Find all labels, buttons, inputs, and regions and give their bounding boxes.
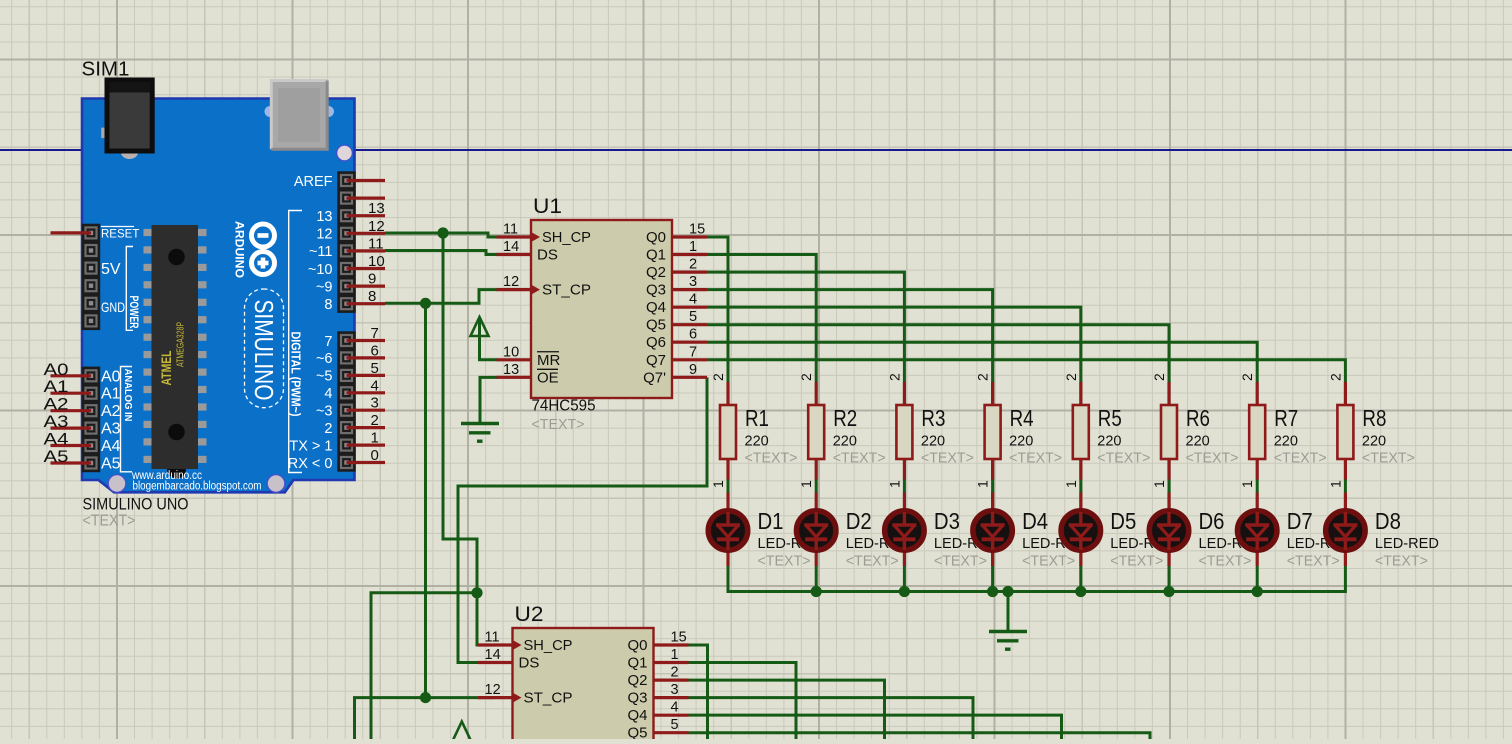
svg-text:D4: D4 <box>1022 508 1048 534</box>
mounting hole top right <box>337 145 353 161</box>
svg-text:R6: R6 <box>1186 405 1210 431</box>
svg-text:2: 2 <box>975 373 991 381</box>
wire: pin11 to U1 DS <box>385 251 498 255</box>
svg-text:1: 1 <box>371 430 379 447</box>
svg-text:220: 220 <box>833 434 857 450</box>
svg-text:10: 10 <box>503 344 519 360</box>
wire: U1 Q7 to R8 <box>707 360 1345 382</box>
svg-text:A5: A5 <box>101 455 121 472</box>
junction bus at D6 <box>1163 586 1174 597</box>
resistor R3 220 <box>903 382 906 405</box>
svg-text:<TEXT>: <TEXT> <box>745 450 798 467</box>
svg-text:220: 220 <box>1274 434 1298 450</box>
svg-text:AREF: AREF <box>294 174 333 190</box>
svg-text:GND: GND <box>101 299 125 315</box>
svg-text:<TEXT>: <TEXT> <box>1274 450 1327 467</box>
wire: U1 Q7' to U2 DS <box>458 377 707 662</box>
svg-text:220: 220 <box>1009 434 1033 450</box>
svg-text:DS: DS <box>519 655 540 672</box>
svg-text:~10: ~10 <box>308 262 333 278</box>
svg-text:0: 0 <box>371 447 379 464</box>
led D4 LED-RED <box>991 480 994 493</box>
svg-text:13: 13 <box>368 200 385 217</box>
svg-text:2: 2 <box>671 665 679 681</box>
svg-text:<TEXT>: <TEXT> <box>758 553 811 570</box>
wire: ST_CP net down to U2 <box>426 303 495 697</box>
power header <box>82 224 100 330</box>
svg-text:Q7': Q7' <box>643 369 666 386</box>
svg-text:5: 5 <box>689 309 697 325</box>
wire: U2 Q1 to lower sheet <box>689 663 797 739</box>
led D1 LED-RED <box>727 480 730 493</box>
svg-text:SH_CP: SH_CP <box>524 637 573 654</box>
svg-text:15: 15 <box>689 222 705 238</box>
junction SH_CP at pin12 wire <box>437 227 448 238</box>
svg-text:R4: R4 <box>1010 405 1034 431</box>
svg-text:<TEXT>: <TEXT> <box>1097 450 1150 467</box>
svg-text:ATMEL: ATMEL <box>159 351 174 386</box>
svg-text:ST_CP: ST_CP <box>542 282 591 299</box>
resistor R8 220 <box>1344 382 1347 405</box>
svg-text:<TEXT>: <TEXT> <box>1375 553 1428 570</box>
svg-text:1: 1 <box>689 239 697 255</box>
svg-text:220: 220 <box>1362 434 1386 450</box>
svg-text:<TEXT>: <TEXT> <box>846 553 899 570</box>
svg-text:5: 5 <box>671 717 679 733</box>
svg-text:R7: R7 <box>1274 405 1298 431</box>
svg-text:U2: U2 <box>515 603 544 626</box>
svg-text:2: 2 <box>1239 373 1255 381</box>
svg-text:R5: R5 <box>1098 405 1122 431</box>
resistor R4 220 <box>991 382 994 405</box>
svg-text:A2: A2 <box>44 395 69 414</box>
svg-text:2: 2 <box>689 257 697 273</box>
svg-text:<TEXT>: <TEXT> <box>1362 450 1415 467</box>
svg-text:blogembarcado.blogspot.com: blogembarcado.blogspot.com <box>133 481 262 493</box>
simulino dashed border <box>245 289 284 408</box>
svg-text:POWER: POWER <box>127 296 141 329</box>
svg-text:1: 1 <box>710 480 726 488</box>
svg-text:A3: A3 <box>101 421 121 438</box>
svg-text:1: 1 <box>798 480 814 488</box>
arduino logo <box>252 224 275 247</box>
wire: D6 cathode drop <box>1168 566 1171 592</box>
svg-text:~9: ~9 <box>316 279 333 295</box>
74HC595 U1 body <box>497 237 708 377</box>
power symbol VCC for U2 <box>453 722 471 741</box>
junction SH_CP lower <box>471 587 482 598</box>
ground symbol for U1 <box>480 377 498 423</box>
svg-text:R8: R8 <box>1362 405 1386 431</box>
mounting hole bottom left <box>108 475 126 493</box>
svg-text:Q3: Q3 <box>646 282 666 299</box>
svg-text:<TEXT>: <TEXT> <box>921 450 974 467</box>
svg-text:A4: A4 <box>44 430 69 449</box>
svg-text:R3: R3 <box>921 405 945 431</box>
svg-text:D2: D2 <box>846 508 872 534</box>
led D6 LED-RED <box>1168 480 1171 493</box>
svg-text:<TEXT>: <TEXT> <box>1186 450 1239 467</box>
atmega328 chip <box>144 229 153 236</box>
svg-text:220: 220 <box>745 434 769 450</box>
svg-text:TX > 1: TX > 1 <box>289 438 332 454</box>
wire: D3 cathode drop <box>903 566 906 592</box>
svg-text:13: 13 <box>316 209 332 225</box>
wire: U1 Q1 to R2 <box>707 255 816 382</box>
junction bus at D2 <box>811 586 822 597</box>
svg-text:74HC595: 74HC595 <box>532 398 596 415</box>
svg-text:8: 8 <box>368 288 376 305</box>
analog header <box>82 367 100 473</box>
svg-text:Q7: Q7 <box>646 352 666 369</box>
svg-text:~11: ~11 <box>309 244 333 260</box>
svg-text:1: 1 <box>1151 480 1167 488</box>
wire: U2 Q5 to lower sheet <box>689 733 1151 739</box>
wire: U2 Q0 to lower sheet <box>689 645 708 739</box>
svg-text:A1: A1 <box>101 386 121 403</box>
digital bracket <box>289 211 302 473</box>
svg-text:A2: A2 <box>101 403 121 420</box>
svg-text:A0: A0 <box>101 368 121 385</box>
svg-text:13: 13 <box>503 362 519 378</box>
wire: U1 Q5 to R6 <box>707 325 1169 382</box>
svg-text:<TEXT>: <TEXT> <box>1199 553 1252 570</box>
svg-text:D5: D5 <box>1110 508 1136 534</box>
wire: U2 Q3 to lower sheet <box>689 698 974 739</box>
svg-text:4: 4 <box>671 700 679 716</box>
svg-text:4: 4 <box>324 386 332 402</box>
svg-text:Q5: Q5 <box>627 725 647 739</box>
svg-text:220: 220 <box>921 434 945 450</box>
led D7 LED-RED <box>1256 480 1259 493</box>
digital header 7-0 <box>337 331 355 471</box>
POWER bracket <box>126 247 133 331</box>
svg-text:D7: D7 <box>1287 508 1313 534</box>
wire: U2 Q4 to lower sheet <box>689 715 1062 739</box>
wire: D7 cathode drop <box>1256 566 1259 592</box>
svg-text:D8: D8 <box>1375 508 1401 534</box>
svg-text:ST_CP: ST_CP <box>524 690 573 707</box>
svg-text:Q2: Q2 <box>646 264 666 281</box>
svg-text:12: 12 <box>485 682 501 698</box>
svg-text:9: 9 <box>689 362 697 378</box>
wire: D4 cathode drop <box>991 566 994 592</box>
svg-text:1: 1 <box>1239 480 1255 488</box>
svg-text:2: 2 <box>371 412 379 429</box>
svg-text:2: 2 <box>886 373 902 381</box>
ANALOG IN bracket <box>121 367 133 472</box>
led D3 LED-RED <box>903 480 906 493</box>
svg-text:Q5: Q5 <box>646 317 666 334</box>
svg-text:8: 8 <box>324 297 332 313</box>
svg-text:SIMULINO UNO: SIMULINO UNO <box>83 495 189 514</box>
junction bus at D5 <box>1075 586 1086 597</box>
wire: pin8 to U1 ST_CP <box>385 290 498 304</box>
resistor R6 220 <box>1167 382 1170 405</box>
wire: D2 cathode drop <box>815 566 818 592</box>
svg-text:220: 220 <box>1097 434 1121 450</box>
digital header 13-8 + AREF <box>337 171 355 313</box>
arduino right pin stubs <box>347 181 386 463</box>
junction bus ground tap <box>1002 586 1013 597</box>
svg-text:Q4: Q4 <box>646 299 666 316</box>
led D2 LED-RED <box>815 480 818 493</box>
svg-text:ANALOG IN: ANALOG IN <box>122 369 134 422</box>
svg-text:D3: D3 <box>934 508 960 534</box>
svg-text:<TEXT>: <TEXT> <box>1287 553 1340 570</box>
wire: U1 Q4 to R5 <box>707 307 1081 382</box>
svg-text:Q0: Q0 <box>646 229 666 246</box>
resistor R2 220 <box>815 382 818 405</box>
wire: D5 cathode drop <box>1079 566 1082 592</box>
svg-text:<TEXT>: <TEXT> <box>1009 450 1062 467</box>
junction ST_CP lower <box>420 692 431 703</box>
svg-text:ATMEGA328P: ATMEGA328P <box>176 322 187 367</box>
svg-text:<TEXT>: <TEXT> <box>1022 553 1075 570</box>
svg-text:Q1: Q1 <box>627 655 647 672</box>
wire: U1 Q6 to R7 <box>707 342 1257 382</box>
svg-text:A3: A3 <box>44 412 69 431</box>
arduino SIM1 board outline <box>82 99 355 493</box>
svg-text:A4: A4 <box>101 438 121 455</box>
svg-text:LED-RED: LED-RED <box>1375 535 1439 552</box>
svg-text:A5: A5 <box>44 447 69 466</box>
svg-text:MR: MR <box>537 352 560 369</box>
svg-text:7: 7 <box>689 344 697 360</box>
svg-text:RESET: RESET <box>101 229 139 241</box>
wire: SH_CP branch to lower sheet <box>371 593 477 739</box>
svg-text:12: 12 <box>368 218 385 235</box>
svg-text:7: 7 <box>324 334 332 350</box>
junction bus at D7 <box>1252 586 1263 597</box>
svg-text:14: 14 <box>503 239 519 255</box>
svg-text:D1: D1 <box>758 508 784 534</box>
svg-text:ARDUINO: ARDUINO <box>233 221 247 278</box>
svg-text:5V: 5V <box>101 261 121 278</box>
svg-text:Q6: Q6 <box>646 334 666 351</box>
svg-text:2: 2 <box>798 373 814 381</box>
sheet border line <box>0 149 1512 151</box>
svg-text:~6: ~6 <box>316 351 333 367</box>
mounting hole bottom right <box>267 475 285 493</box>
svg-text:11: 11 <box>485 630 500 646</box>
led D5 LED-RED <box>1079 480 1082 493</box>
led D8 LED-RED <box>1344 480 1347 493</box>
usb connector <box>265 106 276 117</box>
svg-text:4: 4 <box>371 377 379 394</box>
svg-text:U1: U1 <box>533 195 562 218</box>
arduino left pin stubs (reset + A0-A5) <box>51 233 92 463</box>
resistor R7 220 <box>1256 382 1259 405</box>
svg-text:DIGITAL (PWM~): DIGITAL (PWM~) <box>289 332 303 417</box>
svg-text:2: 2 <box>1327 373 1343 381</box>
svg-text:Q0: Q0 <box>627 637 647 654</box>
svg-text:<TEXT>: <TEXT> <box>1110 553 1163 570</box>
svg-text:Q4: Q4 <box>627 707 647 724</box>
svg-text:~5: ~5 <box>316 369 333 385</box>
svg-text:SIM1: SIM1 <box>82 58 130 81</box>
svg-text:10: 10 <box>368 253 385 270</box>
svg-text:R2: R2 <box>833 405 857 431</box>
svg-text:1: 1 <box>886 480 902 488</box>
wire: U1 Q0 to R1 <box>707 237 728 382</box>
svg-text:5: 5 <box>371 360 379 377</box>
svg-text:2: 2 <box>1151 373 1167 381</box>
74HC595 U2 body <box>478 645 689 744</box>
svg-text:3: 3 <box>689 274 697 290</box>
svg-text:4: 4 <box>689 292 697 308</box>
svg-text:2: 2 <box>710 373 726 381</box>
svg-text:~3: ~3 <box>316 404 333 420</box>
svg-text:R1: R1 <box>745 405 769 431</box>
wire: LED cathode bus <box>728 566 1345 592</box>
svg-text:SH_CP: SH_CP <box>542 229 591 246</box>
svg-text:6: 6 <box>371 342 379 359</box>
wire: U1 Q2 to R3 <box>707 272 904 382</box>
svg-text:OE: OE <box>537 369 559 386</box>
svg-text:<TEXT>: <TEXT> <box>934 553 987 570</box>
svg-text:1: 1 <box>1327 480 1343 488</box>
wire: ST_CP branch to lower sheet <box>355 698 426 739</box>
svg-text:11: 11 <box>503 222 518 238</box>
svg-text:9: 9 <box>368 271 376 288</box>
wire: U1 Q3 to R4 <box>707 290 993 382</box>
svg-text:<TEXT>: <TEXT> <box>83 513 136 530</box>
ground symbol for LED bus <box>1007 592 1010 632</box>
svg-text:<TEXT>: <TEXT> <box>532 416 585 433</box>
svg-text:Q1: Q1 <box>646 247 666 264</box>
svg-text:Q3: Q3 <box>627 690 647 707</box>
svg-text:6: 6 <box>689 327 697 343</box>
junction bus at D3 <box>899 586 910 597</box>
svg-text:SIMULINO: SIMULINO <box>249 300 279 401</box>
svg-text:14: 14 <box>485 647 501 663</box>
svg-text:1: 1 <box>1063 480 1079 488</box>
junction ST_CP at pin8 wire <box>420 298 431 309</box>
svg-text:3: 3 <box>371 395 379 412</box>
svg-text:2: 2 <box>324 421 332 437</box>
power jack <box>101 128 111 139</box>
svg-text:Q2: Q2 <box>627 672 647 689</box>
svg-text:DS: DS <box>537 247 558 264</box>
svg-text:11: 11 <box>368 235 384 252</box>
svg-text:3: 3 <box>671 682 679 698</box>
svg-text:12: 12 <box>316 227 332 243</box>
svg-text:<TEXT>: <TEXT> <box>833 450 886 467</box>
resistor R1 220 <box>726 382 729 405</box>
wire: pin12 to U1 SH_CP <box>385 233 498 237</box>
wire: U2 Q2 to lower sheet <box>689 680 885 739</box>
svg-text:D6: D6 <box>1199 508 1225 534</box>
svg-text:220: 220 <box>1186 434 1210 450</box>
power symbol VCC for U1 <box>471 317 489 336</box>
wire: SH_CP net down to U2 <box>443 233 494 645</box>
svg-text:A0: A0 <box>44 360 69 379</box>
junction bus at D4 <box>987 586 998 597</box>
svg-text:12: 12 <box>503 274 519 290</box>
svg-text:1: 1 <box>975 480 991 488</box>
svg-text:15: 15 <box>671 630 687 646</box>
svg-text:7: 7 <box>371 325 379 342</box>
svg-text:1: 1 <box>671 647 679 663</box>
resistor R5 220 <box>1079 382 1082 405</box>
svg-text:2: 2 <box>1063 373 1079 381</box>
svg-text:RX < 0: RX < 0 <box>288 456 333 472</box>
svg-text:A1: A1 <box>44 377 69 396</box>
